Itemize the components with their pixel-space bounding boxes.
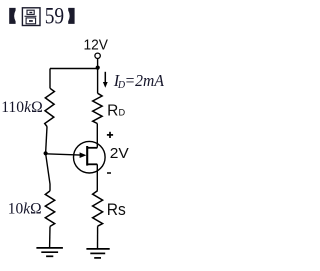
svg-text:2V: 2V [110, 146, 129, 162]
svg-text:=2mA: =2mA [125, 71, 165, 90]
svg-text:Rs: Rs [107, 200, 126, 219]
svg-text:R: R [107, 103, 118, 120]
svg-text:12V: 12V [84, 37, 109, 53]
svg-text:D: D [119, 107, 126, 117]
svg-text:110kΩ: 110kΩ [1, 99, 43, 116]
svg-text:10kΩ: 10kΩ [8, 200, 42, 217]
svg-text:59: 59 [45, 4, 64, 29]
